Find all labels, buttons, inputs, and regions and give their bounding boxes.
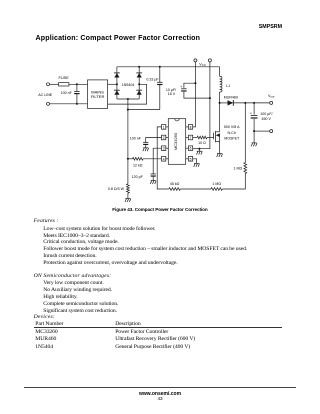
wire Vcc positive down to pin 8 — [193, 62, 196, 127]
svg-text:16 V: 16 V — [168, 92, 176, 96]
svg-text:MUR460: MUR460 — [224, 95, 238, 99]
capacitor 0.33 uF — [159, 67, 161, 82]
svg-text:MOSFET: MOSFET — [224, 137, 240, 141]
bridge left leg wire — [116, 67, 118, 99]
svg-text:100 nF: 100 nF — [130, 137, 142, 141]
fuse F1 — [59, 83, 69, 86]
svg-text:0.33 µF: 0.33 µF — [146, 77, 159, 81]
resistor 1 MOhm upper divider — [244, 103, 246, 163]
capacitor 100 uF 450 V — [253, 103, 255, 115]
svg-text:5: 5 — [190, 157, 192, 161]
diode D3 1N5404 lower left — [114, 90, 120, 95]
resistor 45 kOhm — [169, 188, 180, 191]
transistor Q1 N-channel MOSFET — [214, 103, 220, 154]
footer page number — [0, 396, 320, 401]
wire pin6 to junction — [193, 148, 200, 150]
page title — [36, 34, 201, 42]
resistor 0.8 Ohm 3 W sense — [127, 159, 129, 184]
svg-text:450 V: 450 V — [262, 117, 272, 121]
svg-text:100 nF: 100 nF — [61, 91, 73, 95]
op-amp U1 MC33260 body — [168, 119, 185, 165]
wire bottom input to filter — [50, 103, 88, 105]
wire drain node to diode — [220, 102, 228, 104]
wire sense line down — [127, 110, 129, 159]
capacitor 10 uF 16 V — [184, 83, 196, 88]
footer url — [0, 391, 320, 397]
ground sense resistor — [125, 199, 131, 202]
svg-text:N-Ch: N-Ch — [228, 131, 236, 135]
svg-text:FILTER: FILTER — [91, 94, 105, 99]
node 12k tap — [127, 158, 129, 160]
features text block — [34, 218, 248, 267]
inductor L1 — [219, 67, 221, 77]
svg-text:1 MΩ: 1 MΩ — [212, 182, 221, 186]
svg-text:8: 8 — [190, 125, 192, 129]
Vcc terminal positive — [194, 59, 197, 62]
node 100uF top — [253, 102, 255, 104]
wire filter top output to bridge left leg — [108, 83, 117, 85]
ground pin3 cap — [150, 181, 156, 184]
svg-text:4: 4 — [163, 157, 165, 161]
wire Vcc return down to pin6 net — [199, 62, 210, 149]
wire fuse to filter — [69, 83, 88, 85]
pin 2 — [162, 135, 166, 140]
node 0.33uF tap — [159, 66, 161, 68]
mains filter block — [88, 80, 108, 109]
svg-text:500 V/8 A: 500 V/8 A — [224, 125, 240, 129]
node output return junction — [253, 130, 255, 132]
svg-text:L1: L1 — [226, 84, 230, 88]
svg-text:AC LINE: AC LINE — [38, 93, 53, 97]
pin 3 — [162, 146, 166, 151]
wire divider middle — [180, 188, 211, 190]
svg-text:7: 7 — [190, 136, 192, 140]
wire diode to Vout — [233, 102, 269, 104]
node 10uF top junction — [194, 82, 196, 84]
node MOSFET drain junction — [219, 102, 221, 104]
node bridge bottom tap — [127, 98, 129, 100]
Vout terminal — [270, 101, 273, 104]
pin 4 — [162, 157, 166, 162]
ground output cap — [253, 131, 255, 143]
header doc id — [259, 24, 282, 30]
wire top DC rail — [117, 66, 220, 68]
bridge right leg wire — [138, 67, 140, 99]
svg-text:3: 3 — [163, 147, 165, 151]
svg-text:12 kΩ: 12 kΩ — [133, 163, 143, 167]
pin 7 — [188, 135, 192, 140]
svg-text:10 Ω: 10 Ω — [198, 141, 206, 145]
svg-text:0.8 Ω/3 W: 0.8 Ω/3 W — [108, 187, 125, 191]
node pin6 ground junction — [198, 148, 200, 150]
svg-text:120 pF: 120 pF — [132, 175, 144, 179]
resistor 10 Ohm gate — [193, 137, 197, 139]
svg-text:1 MΩ: 1 MΩ — [234, 167, 243, 171]
svg-text:1: 1 — [163, 125, 165, 129]
svg-text:45 kΩ: 45 kΩ — [170, 182, 180, 186]
ground pin2 cap — [143, 148, 149, 151]
diode D2 1N5404 upper right — [136, 73, 142, 78]
wire top input to fuse — [50, 83, 59, 85]
capacitor 100 nF input — [76, 84, 78, 91]
wire bridge bottom to sense line — [127, 99, 129, 110]
svg-text:FUSE: FUSE — [59, 75, 70, 80]
node 10uF bottom junction — [209, 97, 211, 99]
bridge bottom rail wire — [117, 98, 139, 100]
node bridge right mid — [138, 83, 140, 85]
diode MUR460 — [228, 100, 234, 106]
output return terminal — [270, 130, 273, 133]
svg-text:MC33260: MC33260 — [173, 132, 178, 150]
svg-text:+: + — [180, 85, 182, 89]
svg-text:VCC: VCC — [199, 62, 206, 67]
capacitor 100 nF pin2 — [146, 138, 162, 143]
figure caption — [0, 207, 320, 212]
node bridge left mid — [116, 83, 118, 85]
AC line terminal top — [47, 83, 50, 86]
wire filter bottom output — [108, 84, 147, 104]
AC line terminal bottom — [47, 102, 50, 105]
wire pin1 feedback down to divider — [157, 127, 169, 189]
devices heading — [34, 314, 55, 321]
resistor 12 kOhm — [128, 158, 133, 160]
wire line B to 0.33uF bottom — [128, 109, 160, 111]
pin 8 — [188, 125, 192, 130]
pin 5 — [188, 157, 192, 162]
svg-text:6: 6 — [190, 147, 192, 151]
wire pin5 to ground — [193, 159, 197, 164]
pin 6 — [188, 146, 192, 151]
svg-text:Vout: Vout — [268, 94, 275, 99]
node junction bottom input cap — [76, 103, 78, 105]
resistor 1 MOhm lower divider — [211, 188, 222, 191]
node 1M top — [244, 102, 246, 104]
svg-text:+: + — [250, 111, 252, 115]
ground MOSFET source — [217, 154, 223, 157]
node bridge top right — [138, 66, 140, 68]
devices table — [35, 321, 63, 328]
node junction top input cap — [76, 83, 78, 85]
svg-text:1N5404: 1N5404 — [122, 83, 135, 87]
svg-text:100 µF/: 100 µF/ — [260, 112, 272, 116]
advantages text block — [34, 273, 119, 315]
pin 1 — [162, 125, 166, 130]
wire to return terminal — [254, 130, 270, 132]
diode D1 1N5404 upper left — [114, 73, 120, 78]
capacitor 120 pF pin3 — [153, 148, 161, 174]
ground pin5 — [194, 163, 200, 166]
node sense line junction — [127, 109, 129, 111]
ground pin6 — [198, 149, 200, 152]
diode D4 1N5404 lower right — [136, 90, 142, 95]
Vcc terminal return — [208, 59, 211, 62]
footer rule — [24, 387, 296, 388]
svg-text:2: 2 — [163, 136, 165, 140]
